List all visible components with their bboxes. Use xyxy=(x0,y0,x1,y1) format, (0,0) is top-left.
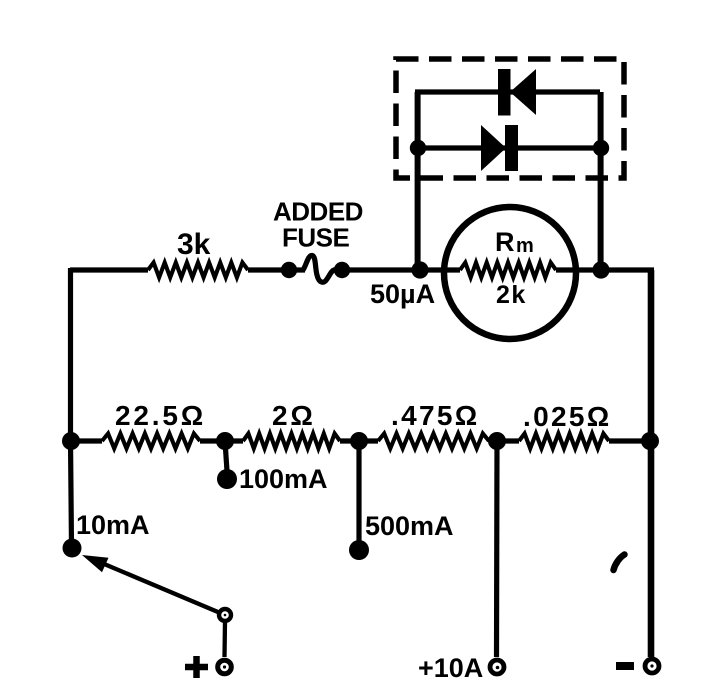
wire top diode branch horizontal xyxy=(415,89,600,94)
wire diode-branch left vertical xyxy=(415,92,421,270)
svg-text:.475Ω: .475Ω xyxy=(391,400,479,431)
junction dot diode branch left xyxy=(410,140,426,156)
junction dot row right xyxy=(641,432,659,450)
wire between 2 and .475 ohm xyxy=(340,438,378,443)
svg-text:2Ω: 2Ω xyxy=(272,400,316,431)
wire row right stub xyxy=(609,438,651,443)
resistor 2 ohm zigzag xyxy=(243,434,340,449)
resistor 22.5 ohm zigzag xyxy=(102,434,200,449)
svg-text:+10A: +10A xyxy=(418,653,483,683)
minus sign xyxy=(616,662,634,670)
junction dot row left xyxy=(62,432,80,450)
resistor Rm zigzag inside meter xyxy=(460,263,556,278)
diode D1 (cathode-left) bar xyxy=(498,69,511,116)
junction dot diode branch right xyxy=(593,140,609,156)
resistor .025 ohm zigzag xyxy=(519,434,609,449)
diode D2 (cathode-right) triangle xyxy=(481,125,506,171)
svg-text:500mA: 500mA xyxy=(365,511,454,541)
wire 100mA tap stub xyxy=(225,441,227,471)
wire meter to right rail xyxy=(556,267,654,272)
svg-text:100mA: 100mA xyxy=(239,464,328,494)
diode D2 bar xyxy=(505,125,518,171)
junction dot 100mA tap node xyxy=(216,432,234,450)
svg-text:22.5Ω: 22.5Ω xyxy=(115,400,206,431)
wire left rail vertical xyxy=(71,268,72,546)
terminal dot 500mA xyxy=(349,540,369,560)
svg-text:R: R xyxy=(495,227,515,257)
svg-text:2k: 2k xyxy=(496,281,527,309)
switch blade wire with arrowhead xyxy=(90,558,225,615)
wire +10A tap vertical xyxy=(494,441,500,657)
wire right rail vertical xyxy=(648,270,655,657)
svg-text:FUSE: FUSE xyxy=(282,223,350,253)
resistor .475 ohm zigzag xyxy=(378,434,489,449)
terminal +10A open circle xyxy=(490,660,504,674)
wire shunt row left stub xyxy=(70,438,102,443)
wire between .475 and .025 ohm xyxy=(489,438,519,443)
wire top-left horizontal segment xyxy=(70,267,148,272)
meter movement M1 circle xyxy=(444,207,576,339)
junction dot 10A tap node xyxy=(488,432,506,450)
wire between 3k and fuse xyxy=(248,267,305,272)
junction dot meter right node xyxy=(592,261,609,278)
fuse left junction dot xyxy=(281,262,297,278)
junction dot 500mA tap node xyxy=(350,432,368,450)
fuse F1 element curve xyxy=(303,255,334,282)
svg-text:3k: 3k xyxy=(177,228,211,261)
svg-text:m: m xyxy=(516,235,534,257)
terminal dot 100mA xyxy=(217,469,237,489)
wire pivot to plus terminal xyxy=(222,621,227,657)
plus sign xyxy=(185,656,208,678)
resistor 3k zigzag xyxy=(148,263,248,278)
wire between 22.5 and 2 ohm xyxy=(200,438,243,443)
terminal minus open circle xyxy=(645,659,659,673)
svg-text:50µA: 50µA xyxy=(370,279,435,309)
switch pivot open circle xyxy=(219,609,231,621)
svg-text:.025Ω: .025Ω xyxy=(523,401,611,432)
fuse right junction dot xyxy=(334,262,350,278)
wire bottom diode branch horizontal xyxy=(415,145,601,150)
diode D1 triangle xyxy=(510,69,536,115)
wire 500mA tap vertical xyxy=(356,441,361,543)
wire fuse to meter xyxy=(333,267,460,272)
terminal dot 10mA switch contact xyxy=(63,539,82,558)
svg-text:10mA: 10mA xyxy=(76,510,150,540)
junction dot meter left node xyxy=(411,261,428,278)
dashed protection-diode enclosure box xyxy=(396,59,624,178)
wire diode-branch right vertical xyxy=(598,92,604,270)
terminal plus open circle xyxy=(218,660,232,674)
stray apostrophe mark xyxy=(614,555,625,571)
